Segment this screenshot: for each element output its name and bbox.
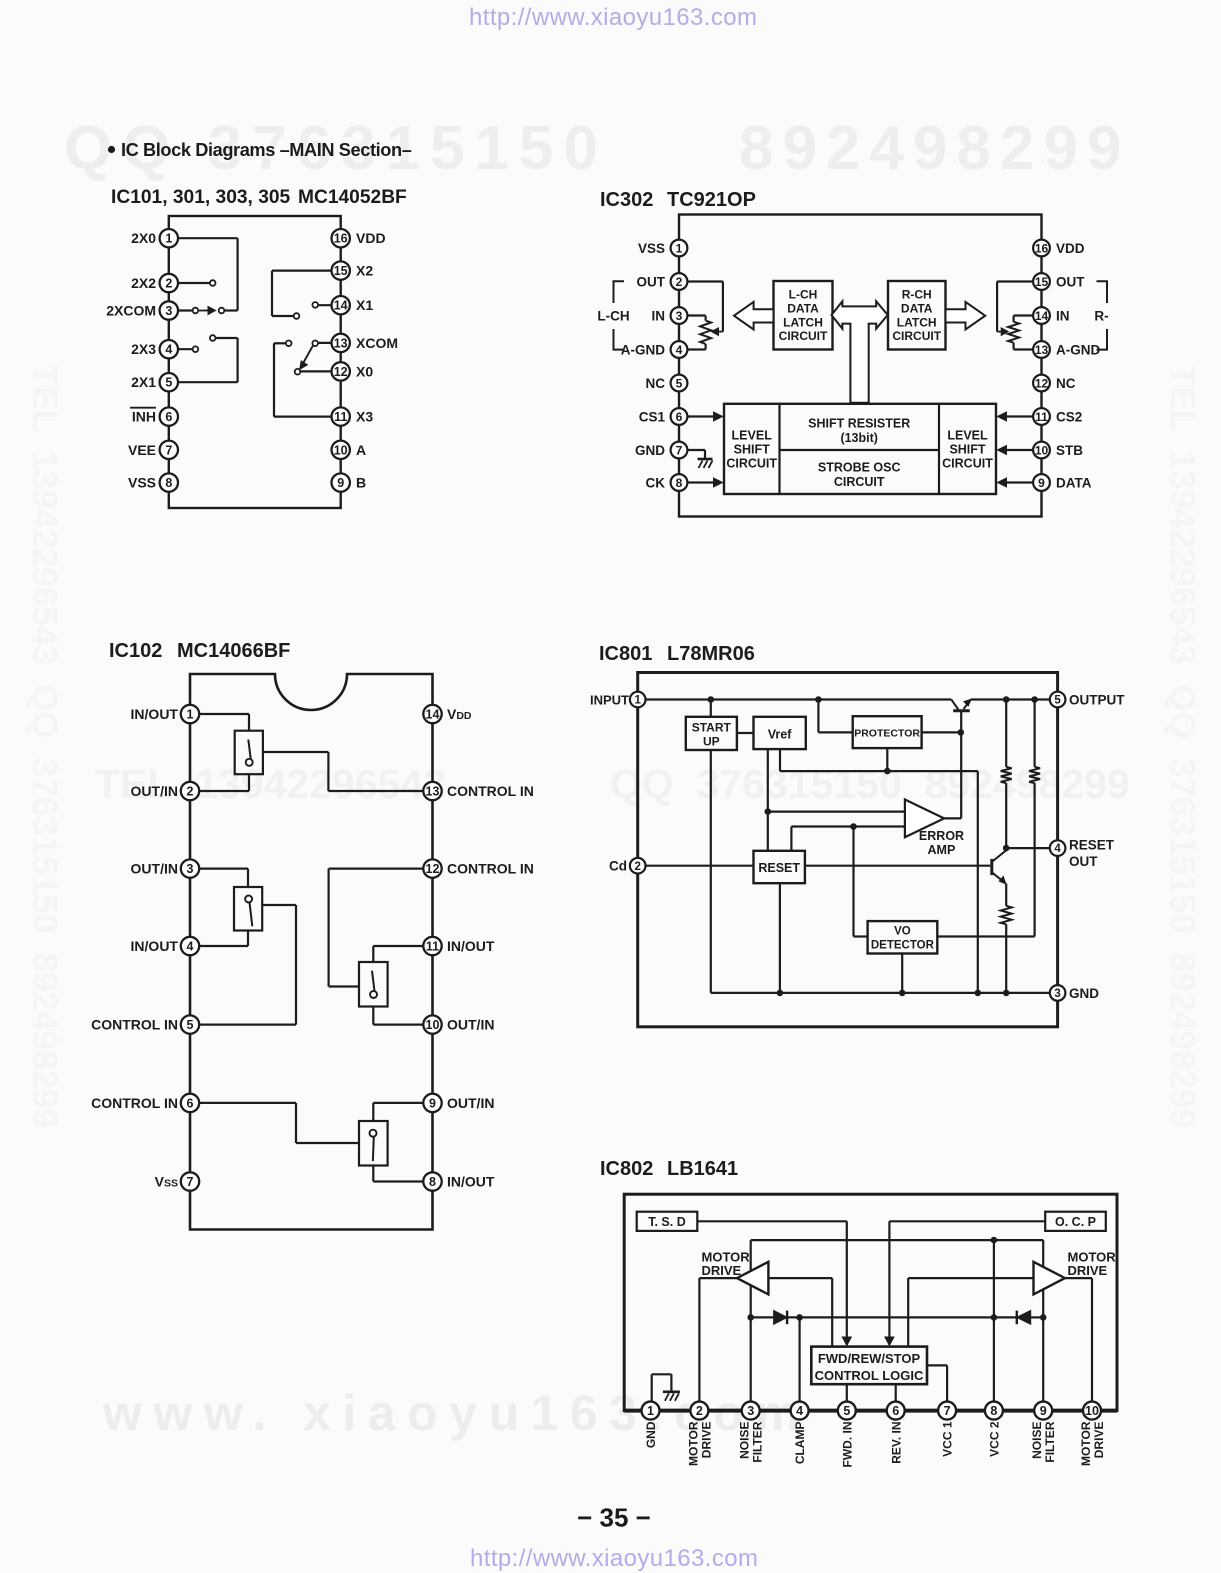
svg-text:TC921OP: TC921OP (667, 189, 756, 211)
svg-text:IN: IN (652, 308, 666, 323)
svg-text:DATA: DATA (787, 301, 819, 315)
svg-text:X2: X2 (356, 263, 373, 279)
svg-text:6: 6 (187, 1096, 194, 1110)
svg-text:IC801: IC801 (599, 643, 652, 665)
svg-text:L78MR06: L78MR06 (667, 643, 755, 665)
svg-text:NOISE: NOISE (1030, 1422, 1044, 1459)
svg-text:SHIFT: SHIFT (734, 443, 770, 457)
svg-text:GND: GND (1069, 986, 1099, 1001)
svg-text:OUT: OUT (1056, 274, 1085, 289)
svg-text:9: 9 (337, 476, 344, 490)
svg-text:R-CH: R-CH (902, 288, 932, 302)
svg-text:DRIVE: DRIVE (1068, 1263, 1108, 1278)
svg-text:1: 1 (165, 232, 172, 246)
svg-text:3: 3 (165, 304, 172, 318)
svg-text:DRIVE: DRIVE (1092, 1422, 1106, 1459)
svg-text:2X2: 2X2 (131, 275, 156, 291)
svg-text:L-CH: L-CH (789, 288, 818, 302)
svg-text:3: 3 (747, 1404, 754, 1418)
svg-text:IN/OUT: IN/OUT (447, 938, 495, 954)
svg-text:2X1: 2X1 (131, 374, 156, 390)
svg-text:9: 9 (1040, 1404, 1047, 1418)
svg-text:CS1: CS1 (639, 409, 666, 424)
svg-text:12: 12 (1035, 376, 1049, 390)
svg-text:13: 13 (426, 785, 440, 799)
svg-text:8: 8 (165, 476, 172, 490)
svg-text:X3: X3 (356, 409, 373, 425)
svg-text:VSS: VSS (128, 475, 156, 491)
svg-text:SHIFT RESISTER: SHIFT RESISTER (808, 417, 910, 431)
svg-text:FWD. IN: FWD. IN (840, 1422, 854, 1468)
svg-text:OUT: OUT (637, 274, 666, 289)
svg-text:FILTER: FILTER (1043, 1421, 1057, 1462)
svg-text:MOTOR: MOTOR (1079, 1421, 1093, 1466)
svg-text:START: START (692, 721, 732, 735)
svg-text:O. C. P: O. C. P (1055, 1215, 1096, 1229)
svg-text:3: 3 (676, 309, 683, 323)
svg-text:AMP: AMP (928, 843, 956, 857)
svg-text:14: 14 (334, 299, 348, 313)
svg-text:DATA: DATA (1056, 475, 1092, 490)
svg-text:4: 4 (1054, 843, 1061, 855)
svg-text:10: 10 (1035, 443, 1049, 457)
svg-text:INPUT: INPUT (590, 693, 629, 708)
svg-text:VSS: VSS (155, 1174, 178, 1190)
svg-text:X0: X0 (356, 363, 373, 379)
svg-text:5: 5 (187, 1018, 194, 1032)
svg-text:LEVEL: LEVEL (947, 429, 988, 443)
svg-text:11: 11 (1035, 410, 1048, 424)
svg-text:16: 16 (334, 232, 348, 246)
svg-text:4: 4 (165, 343, 172, 357)
svg-text:14: 14 (426, 708, 440, 722)
svg-text:4: 4 (676, 343, 683, 357)
svg-text:9: 9 (429, 1096, 436, 1110)
svg-text:5: 5 (1054, 695, 1061, 707)
svg-text:9: 9 (1038, 476, 1045, 490)
svg-text:1: 1 (634, 695, 641, 707)
svg-text:SHIFT: SHIFT (949, 443, 985, 457)
svg-text:DATA: DATA (901, 301, 933, 315)
svg-text:7: 7 (165, 443, 172, 457)
svg-text:NOISE: NOISE (738, 1422, 752, 1459)
svg-text:CK: CK (646, 475, 666, 490)
svg-text:NC: NC (646, 376, 666, 391)
svg-text:CONTROL IN: CONTROL IN (91, 1017, 178, 1033)
svg-text:1: 1 (676, 241, 683, 255)
svg-text:OUT/IN: OUT/IN (447, 1095, 494, 1111)
svg-text:CONTROL IN: CONTROL IN (447, 783, 534, 799)
svg-text:CONTROL LOGIC: CONTROL LOGIC (815, 1368, 924, 1383)
svg-text:2: 2 (696, 1404, 703, 1418)
svg-text:CLAMP: CLAMP (793, 1422, 807, 1465)
svg-text:5: 5 (843, 1404, 850, 1418)
svg-text:2XCOM: 2XCOM (106, 303, 156, 319)
svg-text:3: 3 (1054, 988, 1060, 1000)
svg-text:5: 5 (165, 376, 172, 390)
svg-text:OUT/IN: OUT/IN (131, 861, 178, 877)
svg-text:6: 6 (892, 1404, 899, 1418)
svg-text:12: 12 (426, 862, 440, 876)
svg-text:14: 14 (1035, 309, 1049, 323)
svg-text:DRIVE: DRIVE (699, 1422, 713, 1459)
svg-text:GND: GND (644, 1421, 658, 1448)
svg-text:8: 8 (676, 476, 683, 490)
svg-text:VEE: VEE (128, 442, 156, 458)
svg-text:INH: INH (132, 409, 156, 425)
svg-text:IC802: IC802 (600, 1158, 653, 1180)
svg-text:XCOM: XCOM (356, 335, 398, 351)
svg-text:VSS: VSS (638, 241, 665, 256)
svg-text:CIRCUIT: CIRCUIT (726, 457, 777, 471)
svg-text:CONTROL IN: CONTROL IN (91, 1095, 178, 1111)
svg-text:PROTECTOR: PROTECTOR (854, 728, 920, 740)
svg-text:5: 5 (676, 376, 683, 390)
svg-text:12: 12 (334, 365, 348, 379)
svg-text:DETECTOR: DETECTOR (871, 940, 935, 952)
svg-text:A-GND: A-GND (1056, 342, 1100, 357)
svg-text:MC14066BF: MC14066BF (177, 640, 290, 662)
svg-text:B: B (356, 475, 366, 491)
svg-text:VO: VO (894, 926, 911, 938)
svg-text:IC302: IC302 (600, 189, 653, 211)
svg-text:REV. IN: REV. IN (889, 1422, 903, 1464)
svg-text:10: 10 (334, 443, 348, 457)
svg-text:16: 16 (1035, 241, 1049, 255)
svg-text:− 35 −: − 35 − (577, 1503, 651, 1533)
svg-text:STB: STB (1056, 443, 1083, 458)
svg-text:1: 1 (647, 1404, 654, 1418)
svg-text:2X0: 2X0 (131, 230, 156, 246)
svg-text:(13bit): (13bit) (840, 431, 878, 445)
svg-text:A: A (356, 442, 366, 458)
svg-text:2: 2 (165, 277, 172, 291)
svg-text:15: 15 (334, 264, 348, 278)
svg-text:UP: UP (703, 735, 720, 749)
svg-text:RESET: RESET (758, 861, 800, 875)
svg-text:T. S. D: T. S. D (648, 1215, 686, 1229)
svg-text:7: 7 (944, 1404, 951, 1418)
svg-text:IN/OUT: IN/OUT (131, 938, 179, 954)
svg-text:IN: IN (1056, 308, 1070, 323)
svg-text:STROBE OSC: STROBE OSC (818, 461, 901, 475)
svg-text:GND: GND (635, 443, 665, 458)
svg-text:8: 8 (990, 1404, 997, 1418)
svg-text:CONTROL IN: CONTROL IN (447, 861, 534, 877)
svg-text:LATCH: LATCH (897, 315, 937, 329)
svg-text:2: 2 (676, 275, 683, 289)
svg-text:LB1641: LB1641 (667, 1158, 738, 1180)
svg-text:2X3: 2X3 (131, 341, 156, 357)
svg-text:13: 13 (334, 336, 348, 350)
svg-text:VCC 2: VCC 2 (988, 1421, 1002, 1457)
svg-text:VDD: VDD (1056, 241, 1085, 256)
svg-text:2: 2 (634, 861, 640, 873)
svg-text:2: 2 (187, 785, 194, 799)
svg-text:IN/OUT: IN/OUT (131, 706, 179, 722)
svg-text:IN/OUT: IN/OUT (447, 1174, 495, 1190)
svg-text:OUT/IN: OUT/IN (131, 783, 178, 799)
svg-text:1: 1 (187, 708, 194, 722)
svg-text:R-: R- (1094, 309, 1108, 324)
svg-text:11: 11 (426, 940, 439, 954)
svg-text:FWD/REW/STOP: FWD/REW/STOP (818, 1351, 921, 1366)
svg-text:IC101, 301, 303, 305: IC101, 301, 303, 305 (111, 187, 291, 208)
svg-text:CIRCUIT: CIRCUIT (834, 475, 885, 489)
svg-text:10: 10 (1085, 1404, 1099, 1418)
svg-text:LEVEL: LEVEL (732, 429, 773, 443)
svg-text:MOTOR: MOTOR (686, 1421, 700, 1466)
svg-text:OUT/IN: OUT/IN (447, 1017, 494, 1033)
svg-text:Vref: Vref (768, 728, 792, 742)
svg-text:L-CH: L-CH (597, 309, 629, 324)
svg-text:CIRCUIT: CIRCUIT (779, 329, 828, 343)
svg-text:3: 3 (187, 862, 194, 876)
svg-text:VDD: VDD (356, 230, 386, 246)
svg-text:A-GND: A-GND (621, 342, 665, 357)
svg-text:IC Block Diagrams –MAIN Sectio: IC Block Diagrams –MAIN Section– (121, 140, 412, 160)
svg-text:13: 13 (1035, 343, 1049, 357)
svg-text:OUT: OUT (1069, 854, 1098, 869)
svg-text:IC102: IC102 (109, 640, 162, 662)
svg-text:NC: NC (1056, 376, 1076, 391)
svg-text:FILTER: FILTER (751, 1421, 765, 1462)
svg-text:6: 6 (165, 410, 172, 424)
svg-text:X1: X1 (356, 297, 373, 313)
svg-text:Cd: Cd (609, 859, 627, 874)
svg-text:OUTPUT: OUTPUT (1069, 693, 1125, 708)
svg-text:CIRCUIT: CIRCUIT (942, 457, 993, 471)
svg-text:MC14052BF: MC14052BF (298, 187, 407, 208)
svg-text:6: 6 (676, 410, 683, 424)
svg-text:7: 7 (676, 443, 683, 457)
svg-text:DRIVE: DRIVE (702, 1263, 742, 1278)
svg-text:7: 7 (187, 1175, 194, 1189)
svg-text:4: 4 (187, 940, 194, 954)
svg-text:ERROR: ERROR (919, 829, 964, 843)
svg-text:CIRCUIT: CIRCUIT (892, 329, 941, 343)
svg-text:8: 8 (429, 1175, 436, 1189)
svg-text:RESET: RESET (1069, 838, 1115, 853)
svg-text:LATCH: LATCH (783, 315, 823, 329)
svg-text:11: 11 (334, 410, 347, 424)
svg-text:4: 4 (796, 1404, 803, 1418)
svg-text:VCC 1: VCC 1 (941, 1421, 955, 1457)
svg-text:10: 10 (426, 1018, 440, 1032)
svg-text:CS2: CS2 (1056, 409, 1082, 424)
svg-text:15: 15 (1035, 275, 1049, 289)
svg-text:VDD: VDD (447, 706, 472, 722)
